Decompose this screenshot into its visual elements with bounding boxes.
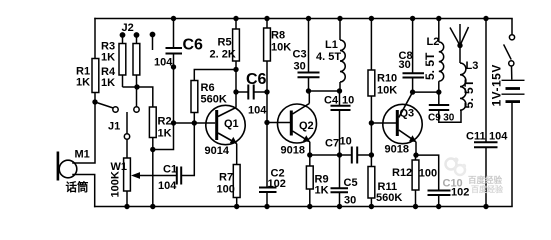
node Q3 emitter: [413, 152, 418, 157]
svg-text:Q3: Q3: [400, 108, 415, 120]
svg-text:104: 104: [489, 131, 508, 143]
node tank right: [337, 88, 342, 93]
svg-text:9018: 9018: [281, 145, 305, 157]
battery B1: [502, 80, 525, 206]
wire collector tank node: [309, 90, 340, 92]
node L2 rail: [436, 16, 441, 21]
svg-text:102: 102: [451, 187, 469, 199]
antenna: [450, 24, 469, 46]
wire C1 to base node: [181, 123, 194, 176]
node Q2 base: [264, 120, 269, 125]
node L1 rail: [337, 16, 342, 21]
capacitor C8: [403, 73, 425, 77]
resistor R2: [149, 107, 156, 138]
transistor Q2 emitter: [293, 131, 310, 142]
svg-text:R10: R10: [377, 73, 397, 85]
svg-text:R12: R12: [392, 167, 412, 179]
svg-text:M1: M1: [75, 149, 90, 161]
wire top supply rail: [95, 18, 512, 20]
capacitor C10: [428, 191, 451, 196]
wire bottom ground rail: [95, 206, 512, 208]
svg-text:5. 5T: 5. 5T: [423, 52, 437, 80]
svg-text:L2: L2: [427, 36, 440, 48]
node C8 bottom: [410, 89, 415, 94]
wire Q2 base: [267, 122, 290, 124]
node R2 branch: [150, 147, 155, 152]
svg-text:10K: 10K: [377, 85, 397, 97]
node C6b left: [233, 89, 238, 94]
resistor R7: [233, 144, 240, 207]
inductor L3: [460, 46, 466, 111]
svg-text:30: 30: [443, 113, 455, 124]
svg-text:5. 5T: 5. 5T: [462, 79, 476, 109]
capacitor C2: [259, 188, 277, 193]
potentiometer W1: [124, 158, 176, 207]
resistor R10: [368, 19, 375, 167]
resistor R8: [264, 19, 271, 188]
transistor Q3 collector: [399, 92, 413, 117]
svg-text:100: 100: [419, 168, 437, 180]
svg-text:104: 104: [248, 105, 267, 117]
svg-text:R5: R5: [218, 37, 232, 49]
svg-text:R8: R8: [271, 30, 285, 42]
svg-text:10: 10: [342, 95, 354, 107]
resistor R4: [133, 35, 140, 87]
svg-text:J2: J2: [122, 22, 134, 34]
svg-text:C7: C7: [325, 138, 339, 150]
svg-text:J1: J1: [108, 121, 120, 133]
node emitter: [307, 152, 312, 157]
transistor Q1 emitter: [218, 133, 237, 144]
svg-text:560K: 560K: [201, 94, 227, 106]
wire J2 switch stub: [152, 35, 154, 51]
transistor Q3 emitter: [399, 130, 416, 142]
node on left edge: [92, 99, 97, 104]
node R5-R6: [233, 67, 238, 72]
svg-text:C9: C9: [428, 113, 441, 124]
switch S: [504, 19, 515, 80]
svg-text:话筒: 话筒: [66, 180, 89, 194]
ground rail junction dots: [124, 204, 488, 209]
wire Q1 base line: [174, 122, 216, 124]
svg-text:1K: 1K: [158, 128, 172, 140]
wire junction down to J1 center: [136, 87, 138, 107]
svg-text:10K: 10K: [271, 42, 291, 54]
wire R2 bottom to ground: [152, 138, 154, 207]
svg-text:30: 30: [344, 195, 356, 207]
wire R3/R4 junction to R2: [123, 87, 153, 107]
transistor Q2: [278, 104, 317, 143]
node L2 bottom: [436, 89, 441, 94]
wire mic bottom to ground: [73, 175, 95, 207]
svg-text:C6: C6: [246, 71, 267, 88]
node C11 rail: [483, 16, 488, 21]
capacitor C7: [352, 147, 357, 164]
inductor L1: [340, 19, 345, 92]
svg-text:R2: R2: [158, 116, 172, 128]
wire left edge upper segment: [73, 19, 95, 164]
wire R2 node to base line: [153, 123, 174, 150]
resistor R9: [306, 155, 313, 207]
capacitor C5: [331, 188, 349, 192]
svg-text:C1: C1: [163, 164, 177, 176]
transistor Q1: [206, 105, 245, 144]
svg-text:R7: R7: [219, 172, 233, 184]
svg-text:2. 2K: 2. 2K: [210, 49, 236, 61]
svg-text:百度经验: 百度经验: [468, 175, 503, 185]
svg-text:Q1: Q1: [224, 118, 239, 130]
svg-text:4. 5T: 4. 5T: [316, 51, 341, 63]
svg-text:30: 30: [294, 61, 306, 73]
resistor R5: [233, 19, 240, 108]
node R8-C6b: [264, 89, 269, 94]
node C6 top rail: [171, 16, 176, 21]
wire Q3 emitter down: [415, 142, 417, 155]
svg-text:C5: C5: [344, 177, 358, 189]
inductor L2: [439, 19, 444, 93]
node base-R6-C1 junction: [192, 120, 197, 125]
capacitor C1: [177, 167, 181, 185]
node base-C6 junction: [171, 120, 176, 125]
node C3 rail: [306, 16, 311, 21]
svg-text:W1: W1: [111, 161, 128, 173]
node C8 rail: [410, 16, 415, 21]
svg-text:C11: C11: [466, 131, 486, 143]
svg-text:102: 102: [268, 178, 286, 190]
svg-text:560K: 560K: [376, 192, 402, 204]
svg-text:104: 104: [154, 57, 173, 69]
svg-text:Q2: Q2: [299, 120, 314, 132]
node Q3 base: [369, 120, 374, 125]
capacitor C9: [429, 105, 449, 110]
svg-text:C4: C4: [324, 95, 339, 107]
svg-text:1K: 1K: [101, 77, 115, 89]
svg-text:L1: L1: [325, 39, 338, 51]
jack J2 terminal dots: [120, 32, 156, 38]
svg-text:L3: L3: [466, 60, 479, 72]
transistor Q2 collector: [293, 104, 310, 115]
svg-text:C6: C6: [183, 37, 204, 54]
svg-text:1K: 1K: [315, 185, 329, 197]
resistor R12: [412, 155, 419, 206]
node R5 rail: [233, 16, 238, 21]
node tank left: [306, 88, 311, 93]
svg-text:C3: C3: [293, 49, 307, 61]
wire C8-L2 node: [413, 91, 439, 93]
capacitor C6 second: [248, 85, 253, 100]
watermark: [446, 158, 504, 195]
potentiometer W1 wiper arrow: [131, 172, 140, 179]
svg-text:1V-15V: 1V-15V: [490, 64, 504, 106]
resistor R6: [191, 70, 236, 124]
svg-text:R6: R6: [201, 82, 215, 94]
wire Q2 collector up: [308, 91, 310, 104]
transistor Q1 collector: [218, 108, 236, 117]
svg-text:9014: 9014: [205, 145, 230, 157]
capacitor C4: [331, 106, 351, 110]
capacitor C3: [298, 73, 320, 78]
svg-text:1K: 1K: [101, 52, 115, 64]
node R8 rail: [264, 16, 269, 21]
resistor R11: [368, 167, 375, 207]
node C7 junction: [369, 152, 374, 157]
capacitor C11: [474, 142, 498, 147]
resistor R3: [119, 35, 126, 87]
jack J1: [95, 102, 139, 158]
node R10 rail: [369, 16, 374, 21]
svg-text:100: 100: [217, 184, 235, 196]
wire Q2 emitter line: [310, 154, 351, 156]
transistor Q3: [383, 104, 422, 143]
node C6 lower: [171, 64, 176, 69]
svg-text:104: 104: [158, 180, 177, 192]
svg-text:100K: 100K: [110, 171, 122, 197]
microphone M1: [57, 152, 77, 181]
svg-text:1K: 1K: [76, 77, 90, 89]
node C4-C5: [337, 152, 342, 157]
wire Q3 base: [371, 122, 396, 124]
capacitor C6 first: [166, 48, 183, 54]
svg-text:10: 10: [340, 136, 352, 148]
svg-text:百度经验: 百度经验: [471, 184, 504, 194]
resistor R1: [92, 59, 99, 93]
svg-text:9018: 9018: [385, 144, 409, 156]
svg-text:30: 30: [399, 59, 411, 71]
node R3 R4 junction: [134, 84, 139, 89]
